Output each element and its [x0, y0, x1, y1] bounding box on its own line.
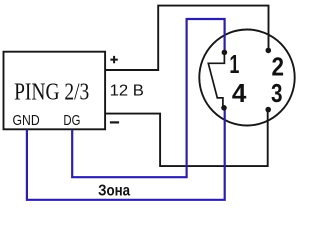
device box U1 PING 2/3 — [4, 52, 106, 130]
svg-text:PING 2/3: PING 2/3 — [14, 79, 89, 105]
terminal label + — [110, 56, 117, 63]
svg-text:1: 1 — [229, 49, 239, 79]
pin 4 contact dot — [221, 105, 227, 111]
svg-text:GND: GND — [13, 113, 40, 129]
connector body circle — [199, 30, 294, 126]
svg-text:DG: DG — [63, 113, 80, 129]
svg-text:12 В: 12 В — [110, 83, 144, 100]
svg-text:2: 2 — [271, 51, 284, 81]
blue wire DG to pin 1 — [72, 19, 224, 177]
blue wire GND to pin 4 (Зона loop) — [27, 107, 225, 200]
svg-text:Зона: Зона — [98, 182, 130, 199]
pin 3 contact dot — [265, 107, 271, 113]
pin 1 contact dot — [222, 50, 228, 56]
switch contact between pin 1 and pin 4 — [208, 52, 224, 107]
terminal label − — [110, 121, 119, 123]
svg-text:3: 3 — [271, 78, 283, 108]
wire + terminal to connector pin 2 — [105, 6, 268, 70]
wire − terminal to connector pin 3 — [105, 110, 267, 167]
pin 2 contact dot — [266, 48, 272, 54]
svg-text:4: 4 — [232, 78, 247, 108]
